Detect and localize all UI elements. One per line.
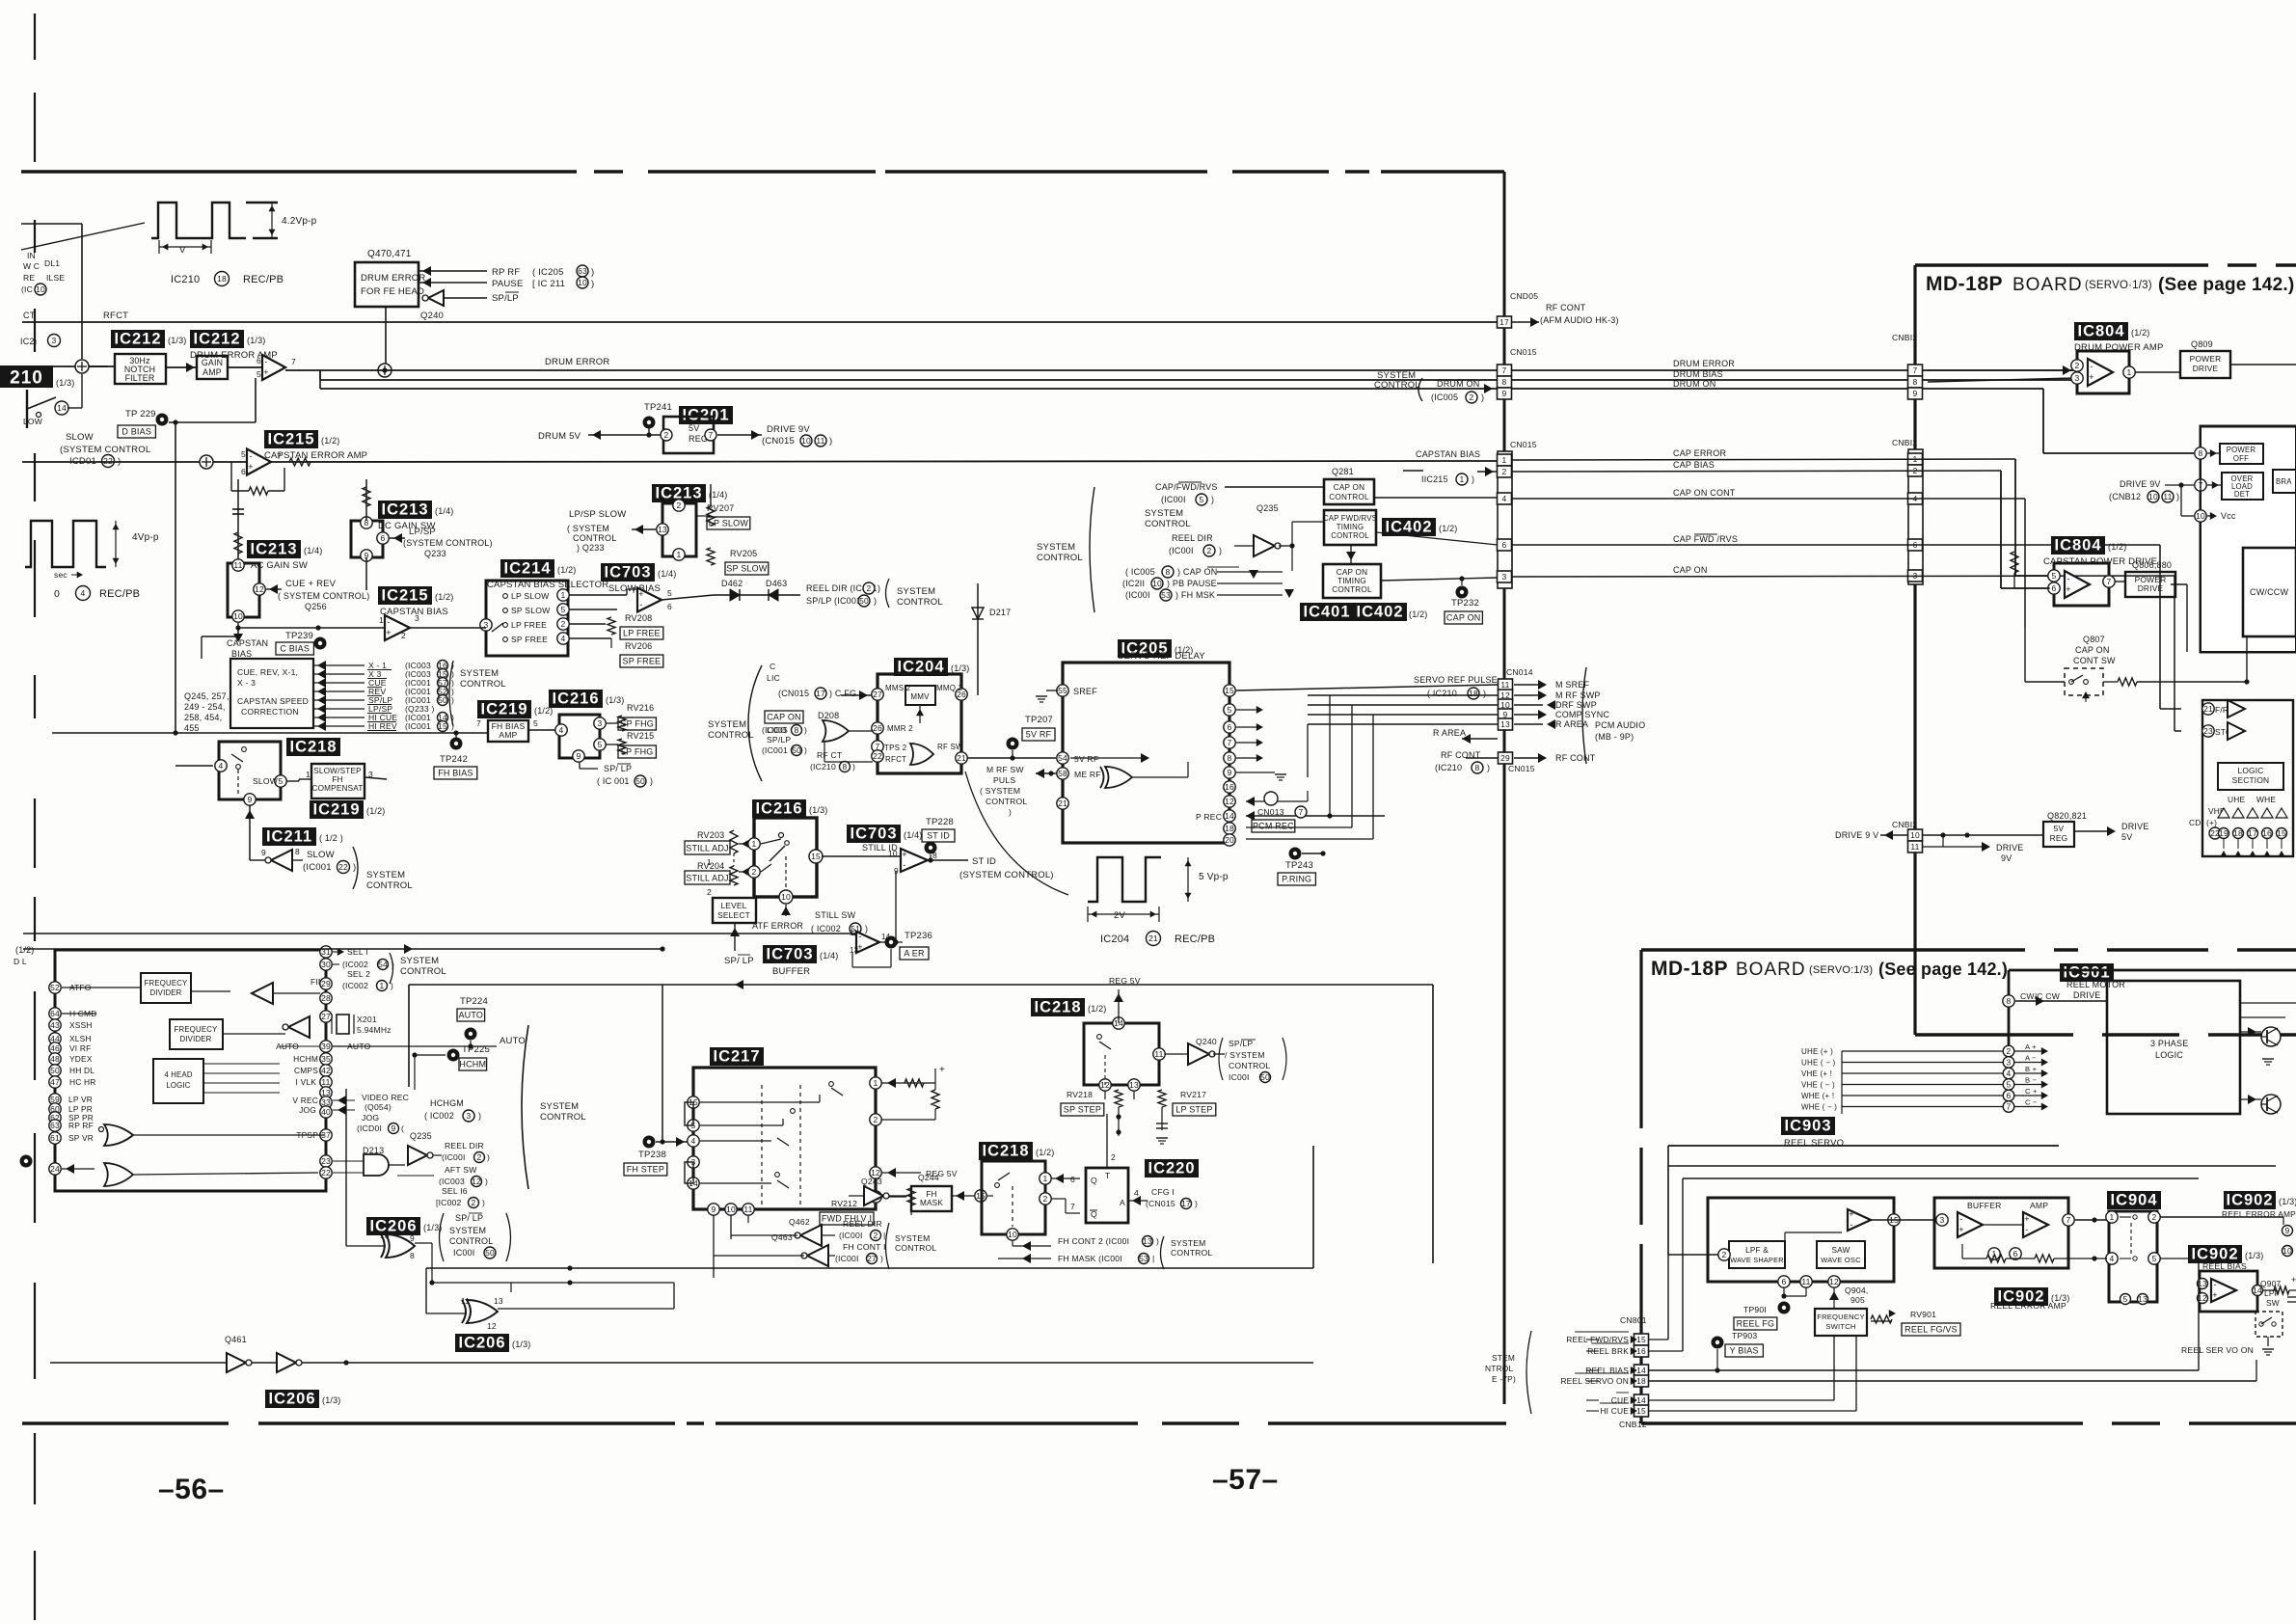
svg-text:54: 54: [378, 960, 388, 969]
svg-text:TP903: TP903: [1732, 1331, 1757, 1340]
svg-text:(1/2): (1/2): [2131, 328, 2150, 338]
svg-text:13: 13: [850, 946, 859, 955]
svg-text:50: 50: [635, 776, 645, 786]
svg-text:2: 2: [1043, 1194, 1048, 1204]
svg-text:29: 29: [321, 979, 331, 988]
svg-text:9: 9: [712, 1204, 716, 1214]
svg-text:X201: X201: [357, 1015, 377, 1024]
svg-text:VI RF: VI RF: [69, 1043, 91, 1053]
svg-text:HCHGM: HCHGM: [430, 1098, 464, 1108]
svg-text:3: 3: [1940, 1215, 1945, 1225]
svg-text:4: 4: [219, 761, 224, 771]
svg-text:48: 48: [50, 1054, 60, 1064]
svg-text:7: 7: [2007, 1102, 2012, 1112]
svg-text:12: 12: [1225, 797, 1234, 806]
svg-text:4: 4: [561, 634, 566, 643]
svg-text:11: 11: [816, 436, 824, 446]
svg-text:(IC002: (IC002: [342, 981, 368, 990]
svg-text:NTROL: NTROL: [1485, 1364, 1514, 1373]
svg-text:52: 52: [50, 983, 60, 992]
svg-text:3: 3: [2075, 373, 2080, 383]
svg-text:+: +: [2291, 1275, 2296, 1285]
svg-text:-: -: [387, 617, 390, 627]
svg-text:SP/ LP: SP/ LP: [724, 956, 754, 966]
svg-text:REEL DIR: REEL DIR: [445, 1141, 484, 1150]
svg-text:DRIVE: DRIVE: [2121, 822, 2149, 831]
svg-text:LOGIC: LOGIC: [2237, 766, 2263, 775]
svg-text:IC219: IC219: [312, 801, 360, 819]
svg-text:11: 11: [1910, 842, 1919, 852]
svg-text:7: 7: [277, 451, 282, 461]
svg-text:10: 10: [578, 278, 587, 287]
svg-text:REEL ERROR AMP: REEL ERROR AMP: [1990, 1301, 2066, 1311]
svg-text:3: 3: [1502, 572, 1507, 582]
svg-text:CN015: CN015: [1510, 440, 1537, 449]
svg-text:(1/3): (1/3): [2279, 1197, 2296, 1206]
svg-text:1: 1: [1460, 474, 1465, 484]
svg-text:LP/SP SLOW: LP/SP SLOW: [569, 509, 626, 520]
svg-text:HH DL: HH DL: [69, 1066, 95, 1075]
svg-text:SECTION: SECTION: [2232, 775, 2270, 785]
svg-text:2: 2: [677, 501, 682, 510]
svg-text:LP STEP: LP STEP: [1175, 1105, 1212, 1115]
svg-text:IC206: IC206: [458, 1335, 505, 1352]
svg-text:FOR FE HEAD: FOR FE HEAD: [361, 286, 424, 297]
svg-text:A −: A −: [2025, 1054, 2037, 1063]
svg-text:CONTROL: CONTROL: [460, 679, 506, 690]
svg-text:22: 22: [103, 456, 113, 466]
svg-text:16: 16: [1225, 782, 1234, 792]
svg-text:FH CONT 2 (IC00I: FH CONT 2 (IC00I: [1058, 1236, 1129, 1246]
svg-text:): ): [485, 1177, 488, 1186]
svg-text:CONTROL: CONTROL: [1037, 553, 1083, 563]
svg-text:(CN015: (CN015: [762, 436, 795, 447]
svg-text:MMR 2: MMR 2: [887, 724, 913, 733]
svg-text:5V RF: 5V RF: [1026, 730, 1052, 740]
svg-text:5: 5: [257, 369, 261, 379]
svg-text:TP243: TP243: [1285, 860, 1313, 871]
svg-text:TP239: TP239: [285, 631, 313, 641]
svg-text:18: 18: [1636, 1376, 1646, 1386]
svg-text:5: 5: [2052, 571, 2057, 581]
svg-text:(1/2): (1/2): [1409, 609, 1428, 619]
svg-text:21: 21: [957, 753, 966, 763]
svg-text:): ): [804, 745, 807, 755]
svg-text:CAP ON CONT: CAP ON CONT: [1673, 488, 1736, 498]
svg-text:DRIVE: DRIVE: [1996, 843, 2024, 853]
svg-text:D217: D217: [989, 608, 1011, 617]
svg-text:(IC001: (IC001: [762, 745, 788, 755]
svg-text:1: 1: [874, 1078, 878, 1088]
svg-text:IC210: IC210: [171, 274, 200, 285]
svg-text:): ): [391, 981, 393, 990]
svg-text:DRIVE 9V: DRIVE 9V: [2120, 479, 2161, 489]
svg-text:(See page 142.): (See page 142.): [2158, 275, 2294, 295]
svg-text:SP FREE: SP FREE: [511, 635, 548, 644]
svg-text:POWER: POWER: [2190, 354, 2222, 364]
svg-text:Q244: Q244: [918, 1173, 939, 1182]
svg-text:(1/4): (1/4): [904, 830, 923, 840]
svg-text:RV205: RV205: [730, 549, 757, 558]
svg-text:): ): [1483, 689, 1486, 698]
svg-text:STILL ADJ: STILL ADJ: [686, 844, 728, 853]
svg-text:RV208: RV208: [625, 613, 652, 623]
svg-text:9V: 9V: [2001, 853, 2012, 863]
svg-text:AUTO: AUTO: [458, 1011, 483, 1020]
svg-text:3: 3: [415, 613, 419, 623]
svg-text:6: 6: [257, 356, 261, 365]
svg-text:D463: D463: [766, 579, 787, 588]
svg-text:WAVE OSC: WAVE OSC: [1821, 1256, 1861, 1264]
svg-text:DRIVE: DRIVE: [2138, 583, 2164, 593]
svg-text:6: 6: [2013, 1249, 2018, 1259]
svg-text:9: 9: [1913, 389, 1918, 398]
svg-text:sec: sec: [54, 570, 68, 580]
svg-text:(IC00I: (IC00I: [1125, 590, 1150, 600]
svg-text:13: 13: [1143, 1236, 1152, 1246]
svg-text:IC212: IC212: [193, 331, 240, 348]
svg-text:Q462: Q462: [789, 1217, 810, 1227]
svg-text:IC216: IC216: [552, 690, 599, 708]
svg-text:DIVIDER: DIVIDER: [179, 1035, 211, 1043]
svg-text:CONTROL: CONTROL: [986, 797, 1027, 806]
svg-text:50: 50: [1260, 1072, 1270, 1082]
svg-text:Q461: Q461: [225, 1335, 247, 1344]
svg-text:ST ID: ST ID: [972, 856, 996, 867]
svg-text:A +: A +: [2025, 1042, 2037, 1051]
svg-text:13: 13: [2138, 1294, 2147, 1304]
svg-text:(IC005: (IC005: [762, 725, 788, 735]
svg-text:50: 50: [859, 596, 869, 606]
svg-text:REEL SER VO ON: REEL SER VO ON: [2181, 1345, 2254, 1355]
svg-text:AUTO: AUTO: [500, 1036, 526, 1046]
svg-text:2: 2: [2007, 1046, 2012, 1056]
svg-text:10: 10: [1152, 579, 1162, 588]
svg-text:SP/LP: SP/LP: [767, 735, 791, 744]
svg-text:RP RF: RP RF: [68, 1121, 94, 1130]
svg-text:4: 4: [2007, 1069, 2012, 1078]
svg-text:CT: CT: [23, 311, 36, 320]
svg-text:9: 9: [577, 751, 581, 761]
svg-text:27: 27: [867, 1254, 877, 1263]
svg-text:8: 8: [1502, 377, 1507, 387]
svg-text:CNBI2: CNBI2: [1892, 820, 1917, 829]
svg-text:CONTROL: CONTROL: [708, 730, 754, 741]
svg-text:Q240: Q240: [1196, 1037, 1217, 1046]
svg-text:RV207: RV207: [707, 503, 734, 513]
svg-text:B −: B −: [2025, 1076, 2038, 1085]
svg-text:DRIVE: DRIVE: [2073, 990, 2101, 1000]
svg-text:(1/2): (1/2): [1439, 524, 1458, 533]
svg-text:CN801: CN801: [1620, 1315, 1647, 1325]
svg-text:BUFFER: BUFFER: [772, 966, 810, 977]
svg-text:JOG: JOG: [299, 1105, 316, 1115]
svg-text:): ): [1156, 1236, 1159, 1246]
svg-text:DRUM ON: DRUM ON: [1437, 379, 1479, 389]
svg-text:DRUM ERROR: DRUM ERROR: [1673, 359, 1735, 368]
svg-text:REEL FG/VS: REEL FG/VS: [1904, 1325, 1958, 1335]
svg-text:CN015: CN015: [1510, 347, 1537, 357]
svg-text:4: 4: [691, 1136, 696, 1146]
svg-text:+: +: [2024, 1214, 2029, 1224]
svg-text:) PB PAUSE: ) PB PAUSE: [1167, 579, 1217, 588]
svg-text:XSSH: XSSH: [69, 1020, 93, 1030]
svg-text:IC703: IC703: [850, 826, 897, 843]
svg-text:SP/LP: SP/LP: [1229, 1039, 1253, 1048]
svg-text:(1/4): (1/4): [820, 951, 839, 961]
svg-text:(1/3): (1/3): [2245, 1251, 2264, 1260]
svg-text:(IC210: (IC210: [1435, 763, 1462, 772]
svg-text:4: 4: [559, 725, 564, 735]
svg-text:8: 8: [1166, 567, 1171, 577]
svg-text:RF CONT: RF CONT: [1555, 753, 1596, 763]
svg-text:TP225: TP225: [462, 1044, 490, 1055]
svg-text:): ): [487, 1152, 490, 1162]
svg-text:18: 18: [217, 274, 227, 284]
svg-text:CFG I: CFG I: [1151, 1187, 1175, 1197]
svg-text:REEL DIR: REEL DIR: [843, 1219, 882, 1229]
svg-text:13: 13: [658, 525, 667, 534]
svg-text:+: +: [902, 850, 906, 859]
svg-text:(See page 142.): (See page 142.): [1878, 960, 2008, 979]
svg-text:IC213: IC213: [381, 501, 428, 519]
svg-text:P REC: P REC: [1196, 812, 1222, 822]
svg-text:SYSTEM: SYSTEM: [400, 956, 439, 966]
svg-text:5: 5: [598, 740, 603, 749]
svg-text:15: 15: [438, 721, 447, 731]
svg-text:MD-18P: MD-18P: [1651, 958, 1728, 980]
svg-text:BRA: BRA: [2276, 477, 2292, 486]
svg-text:249 - 254,: 249 - 254,: [184, 702, 226, 712]
svg-text:7: 7: [1299, 807, 1304, 817]
svg-text:HCHM: HCHM: [459, 1060, 486, 1069]
svg-text:): ): [650, 776, 653, 786]
svg-text:CN014: CN014: [1506, 667, 1533, 677]
svg-text:(1/3): (1/3): [951, 663, 970, 673]
svg-text:|: |: [883, 1231, 885, 1240]
svg-text:5: 5: [561, 605, 566, 614]
svg-text:CAP FWD/RVS: CAP FWD/RVS: [1323, 514, 1377, 523]
svg-text:M RF SWP: M RF SWP: [1555, 690, 1601, 700]
svg-text:): ): [451, 695, 454, 705]
svg-text:FH: FH: [926, 1190, 936, 1199]
svg-text:(1/2): (1/2): [557, 565, 577, 575]
svg-text:Q904,: Q904,: [1845, 1286, 1868, 1295]
svg-text:8: 8: [1475, 763, 1480, 772]
svg-text:LP FHG: LP FHG: [621, 747, 654, 757]
svg-text:(IC00I: (IC00I: [442, 1152, 466, 1162]
svg-text:27: 27: [321, 1012, 331, 1021]
svg-text:): ): [829, 436, 832, 447]
svg-text:4 HEAD: 4 HEAD: [164, 1070, 193, 1079]
svg-text:8: 8: [1228, 753, 1232, 763]
svg-text:7: 7: [1070, 1202, 1075, 1211]
svg-text:CONTROL: CONTROL: [895, 1243, 936, 1253]
svg-text:CNBI2: CNBI2: [1892, 438, 1917, 447]
svg-text:): ): [478, 1111, 481, 1121]
svg-text:DL1: DL1: [44, 258, 60, 268]
svg-text:SW: SW: [2266, 1298, 2280, 1308]
svg-text:CAP ERROR: CAP ERROR: [1673, 448, 1726, 458]
svg-text:6: 6: [241, 467, 246, 476]
svg-text:LP FREE: LP FREE: [511, 620, 547, 630]
svg-text:2: 2: [664, 430, 669, 440]
svg-text:IN: IN: [27, 251, 36, 260]
svg-text:AMP: AMP: [203, 367, 222, 377]
svg-text:): ): [1211, 495, 1214, 504]
svg-text:40: 40: [321, 1107, 331, 1117]
svg-text:CAP FWD /RVS: CAP FWD /RVS: [1673, 534, 1738, 544]
svg-text:-: -: [2213, 1280, 2216, 1289]
svg-text:CORRECTION: CORRECTION: [241, 707, 299, 717]
svg-text:DRIVE 9V: DRIVE 9V: [767, 424, 810, 435]
svg-text:SLOW: SLOW: [253, 776, 279, 786]
svg-text:6: 6: [2052, 583, 2057, 593]
svg-text:V REC: V REC: [292, 1096, 318, 1105]
svg-text:CONTROL: CONTROL: [1329, 493, 1369, 501]
svg-text:16: 16: [2262, 828, 2272, 838]
svg-text:9: 9: [248, 795, 253, 804]
svg-text:50: 50: [50, 1066, 60, 1075]
svg-text:-: -: [639, 600, 642, 609]
svg-text:2: 2: [1502, 467, 1507, 476]
svg-text:SYSTEM: SYSTEM: [895, 1233, 931, 1243]
svg-text:DRIVE: DRIVE: [2193, 364, 2219, 373]
svg-text:2: 2: [2075, 361, 2080, 370]
svg-text:D208: D208: [818, 711, 839, 720]
svg-text:4: 4: [1134, 1188, 1139, 1198]
svg-text:15: 15: [1225, 686, 1234, 695]
svg-text:CONTROL: CONTROL: [573, 533, 616, 543]
svg-text:FH: FH: [332, 775, 342, 784]
svg-text:-: -: [2066, 574, 2069, 583]
svg-text:6: 6: [1502, 540, 1507, 550]
svg-text:IC217: IC217: [713, 1048, 760, 1066]
svg-text:): ): [482, 1198, 485, 1207]
svg-text:LP VR: LP VR: [68, 1095, 93, 1104]
svg-text:15: 15: [1636, 1406, 1646, 1416]
svg-text:29: 29: [1500, 753, 1510, 763]
svg-text:(SYSTEM CONTROL): (SYSTEM CONTROL): [959, 870, 1054, 880]
svg-text:-: -: [2025, 1225, 2028, 1234]
svg-text:(SERVO:1/3): (SERVO:1/3): [1809, 964, 1873, 976]
svg-text:CAPSTAN: CAPSTAN: [227, 638, 268, 648]
svg-text:IC904: IC904: [2110, 1192, 2157, 1209]
svg-text:CONTROL: CONTROL: [1332, 585, 1372, 594]
svg-text:-: -: [2090, 362, 2093, 371]
svg-text:R AREA: R AREA: [1433, 728, 1466, 738]
svg-text:63: 63: [578, 266, 587, 276]
svg-text:REEL FG: REEL FG: [1737, 1319, 1775, 1329]
svg-text:RP RF: RP RF: [492, 267, 520, 278]
svg-text:22: 22: [338, 862, 348, 872]
svg-text:TP228: TP228: [926, 817, 954, 827]
svg-text:FH CONT I: FH CONT I: [843, 1242, 886, 1252]
svg-text:FH BIAS: FH BIAS: [438, 769, 473, 778]
svg-text:15: 15: [811, 852, 821, 861]
svg-text:5.94MHz: 5.94MHz: [357, 1025, 392, 1035]
svg-text:Q463: Q463: [771, 1232, 793, 1242]
svg-text:10: 10: [1008, 1230, 1017, 1239]
svg-text:HI CUE: HI CUE: [1600, 1406, 1629, 1416]
svg-text:14: 14: [1225, 811, 1234, 821]
svg-text:5: 5: [241, 449, 246, 459]
svg-text:CNBI2: CNBI2: [1892, 333, 1917, 342]
svg-text:13: 13: [1129, 1080, 1139, 1090]
svg-text:DRIVE 9 V: DRIVE 9 V: [1835, 830, 1878, 840]
svg-text:CN015: CN015: [1508, 764, 1535, 773]
svg-text:23: 23: [321, 1156, 331, 1166]
svg-text:CAP/FWD/RVS: CAP/FWD/RVS: [1155, 482, 1218, 492]
svg-text:5: 5: [279, 776, 284, 786]
svg-text:–56–: –56–: [158, 1474, 225, 1505]
svg-text:IC401: IC401: [1303, 604, 1350, 621]
svg-text:-: -: [264, 357, 267, 366]
svg-text:TP207: TP207: [1025, 715, 1053, 725]
svg-text:50: 50: [792, 745, 801, 755]
svg-text:13: 13: [1500, 719, 1510, 729]
svg-text:17: 17: [1181, 1199, 1191, 1208]
svg-text:FH STEP: FH STEP: [627, 1165, 664, 1175]
svg-text:19: 19: [2219, 828, 2228, 838]
svg-text:(IC: (IC: [21, 284, 33, 294]
svg-text:REEL ERROR AMP: REEL ERROR AMP: [2222, 1209, 2296, 1219]
svg-text:BUFFER: BUFFER: [1967, 1201, 2002, 1210]
svg-text:6: 6: [1228, 722, 1232, 732]
svg-text:RF CT: RF CT: [817, 750, 843, 760]
svg-text:2: 2: [1207, 546, 1212, 555]
svg-text:( 1/2 ): ( 1/2 ): [319, 833, 343, 843]
svg-text:( IC005: ( IC005: [1125, 567, 1155, 577]
svg-text:RF CONT: RF CONT: [1546, 303, 1586, 312]
svg-text:): ): [2176, 492, 2179, 501]
svg-text:11: 11: [461, 1296, 470, 1306]
svg-text:( IC 001: ( IC 001: [597, 776, 630, 786]
svg-text:4: 4: [81, 588, 86, 598]
svg-text:6: 6: [2007, 1091, 2012, 1100]
svg-text:CND05: CND05: [1510, 291, 1538, 301]
svg-text:REC/PB: REC/PB: [99, 588, 140, 600]
svg-text:CAP ON: CAP ON: [1446, 613, 1481, 623]
svg-text:B +: B +: [2025, 1065, 2038, 1073]
svg-text:CAP ON: CAP ON: [767, 713, 801, 722]
svg-text:LEVEL: LEVEL: [720, 901, 746, 910]
svg-text:( IC002: ( IC002: [424, 1111, 454, 1121]
svg-text:RV216: RV216: [627, 703, 654, 713]
svg-text:SP SLOW: SP SLOW: [726, 564, 768, 574]
svg-text:SEL 2: SEL 2: [347, 969, 370, 979]
svg-text:( SYSTEM: ( SYSTEM: [567, 524, 609, 533]
svg-text:IC804: IC804: [2054, 537, 2101, 555]
svg-text:22: 22: [873, 751, 882, 761]
svg-text:35: 35: [321, 1054, 331, 1064]
svg-text:4Vp-p: 4Vp-p: [132, 532, 159, 543]
svg-text:IC703: IC703: [766, 946, 813, 963]
svg-text:R AREA: R AREA: [1555, 719, 1588, 729]
svg-text:5 Vp-p: 5 Vp-p: [1199, 872, 1229, 882]
svg-text:LP FREE: LP FREE: [623, 629, 661, 638]
svg-text:15: 15: [1636, 1335, 1646, 1344]
svg-text:CUE + REV: CUE + REV: [285, 579, 337, 589]
svg-text:10: 10: [2282, 1246, 2292, 1256]
svg-text:C −: C −: [2025, 1098, 2038, 1107]
svg-text:IC215: IC215: [381, 587, 428, 605]
svg-text:1: 1: [1043, 1174, 1048, 1183]
svg-text:A ER: A ER: [904, 949, 925, 959]
svg-text:) Q233: ) Q233: [577, 543, 605, 553]
svg-text:1: 1: [1502, 455, 1507, 465]
svg-text:TP238: TP238: [638, 1150, 666, 1160]
